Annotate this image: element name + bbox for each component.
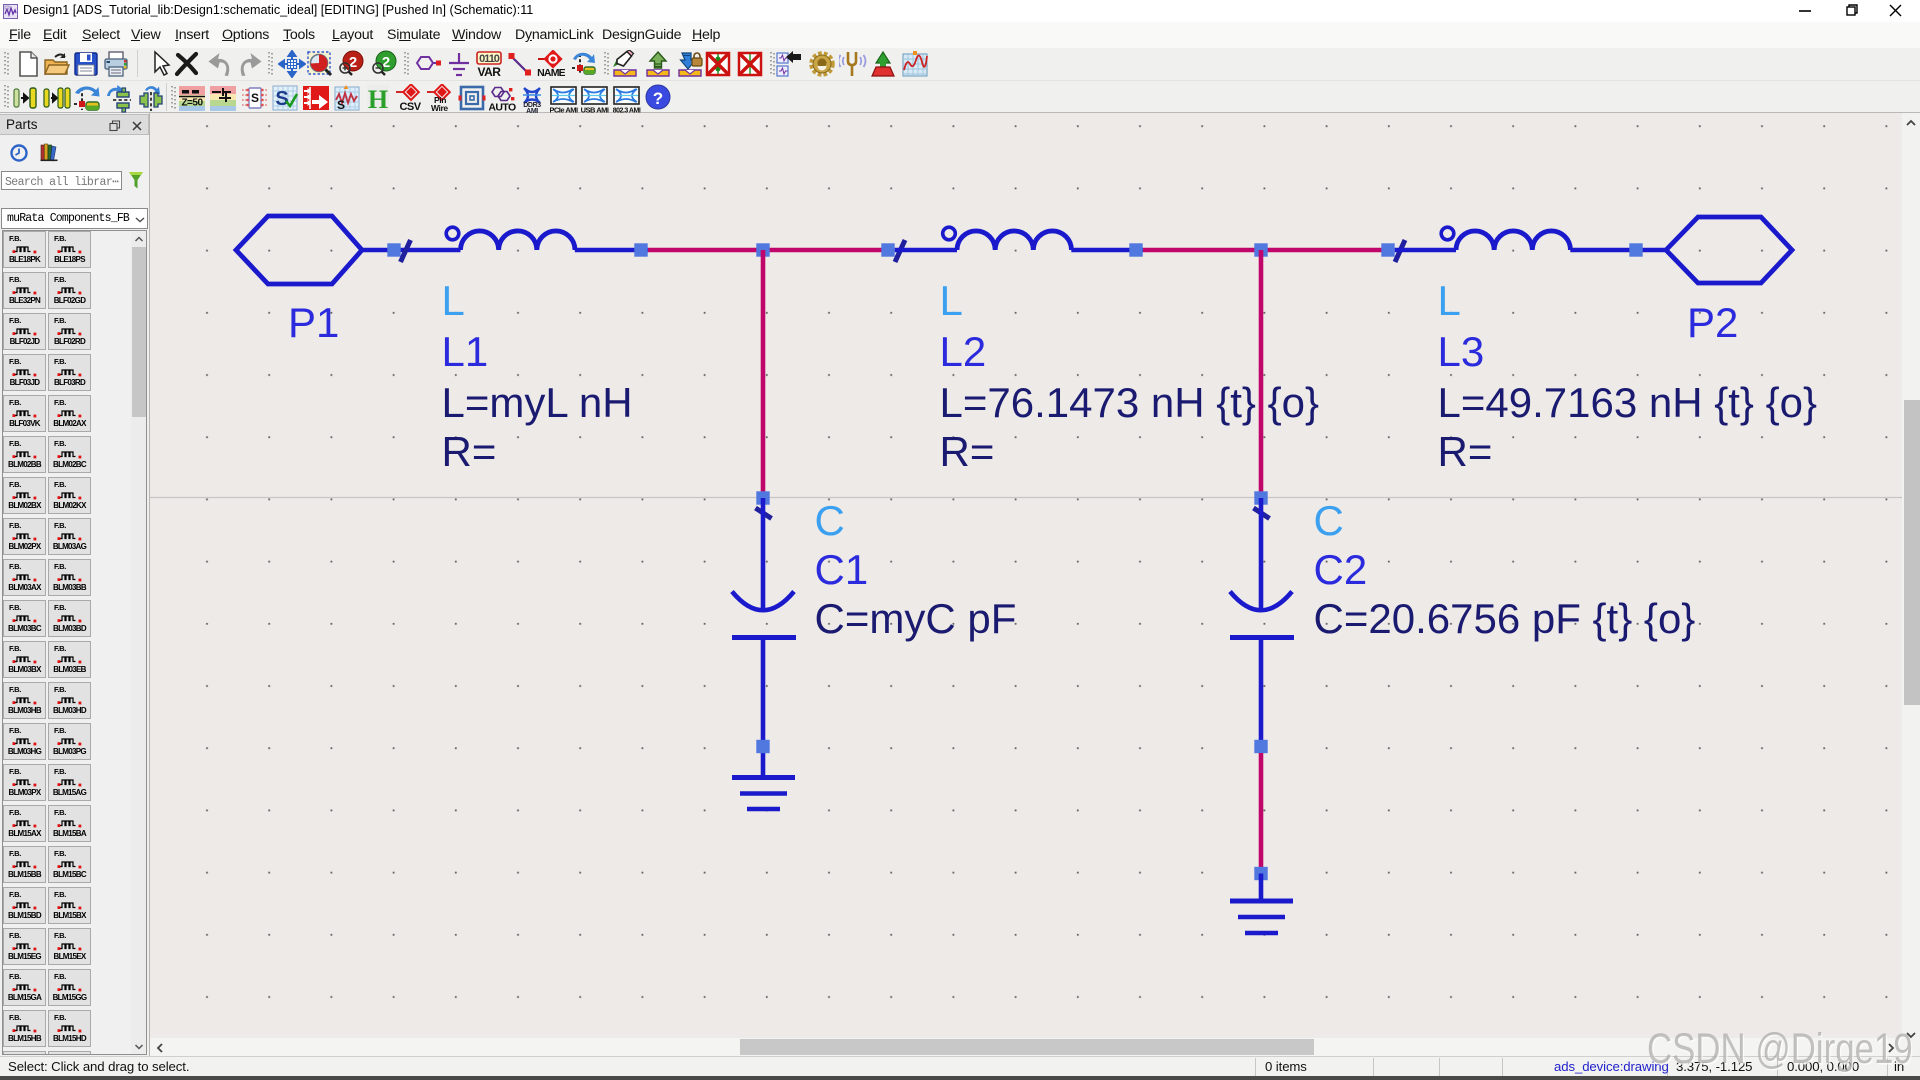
ground under C2 — [1230, 874, 1293, 934]
inductor L1 — [446, 227, 648, 250]
value L1 resistance — [442, 428, 497, 475]
svg-text:R=: R= — [940, 428, 995, 475]
node C1 pin 1 — [756, 491, 769, 504]
value C2 capacitance — [1314, 595, 1696, 642]
node C2 pin 2 — [1254, 740, 1267, 753]
label P2 — [1687, 299, 1738, 346]
svg-text:CSV: CSV — [399, 101, 421, 113]
wire node A to L2 — [763, 248, 888, 253]
wire P1 to L1 — [394, 248, 461, 253]
svg-text:S: S — [251, 91, 259, 105]
label C1 name — [815, 546, 869, 593]
label L3 type L — [1438, 277, 1461, 324]
inductor L3 — [1395, 227, 1666, 250]
svg-text:C=myC pF: C=myC pF — [815, 595, 1017, 642]
svg-text:H: H — [368, 85, 388, 114]
capacitor C2 — [1230, 498, 1294, 753]
pin 1 slash of C1 — [756, 508, 772, 519]
pin 1 slash of C2 — [1254, 508, 1270, 519]
label L3 name — [1438, 328, 1485, 375]
value L3 inductance — [1438, 379, 1818, 426]
wire node B to L3 — [1261, 248, 1388, 253]
label C2 type C — [1314, 497, 1344, 544]
pin 1 slash of L2 — [895, 240, 905, 262]
svg-text:Z=50: Z=50 — [181, 98, 203, 109]
svg-text:AUTO: AUTO — [489, 102, 516, 114]
svg-text:C=20.6756 pF {t} {o}: C=20.6756 pF {t} {o} — [1314, 595, 1696, 642]
x-axis grid line — [150, 497, 1902, 499]
svg-text:L3: L3 — [1438, 328, 1485, 375]
label L1 type L — [442, 277, 465, 324]
svg-text:S: S — [275, 88, 288, 110]
value L3 resistance — [1438, 428, 1493, 475]
svg-text:Wire: Wire — [431, 103, 448, 113]
value C1 capacitance — [815, 595, 1017, 642]
port P1 — [236, 216, 394, 284]
svg-text:L2: L2 — [940, 328, 987, 375]
label L1 name — [442, 328, 489, 375]
port P2 — [1666, 217, 1792, 283]
junction node B — [1254, 243, 1267, 256]
node L2 pin 2 — [1129, 243, 1142, 256]
svg-text:VAR: VAR — [478, 65, 502, 78]
svg-text:C: C — [815, 497, 845, 544]
wire C2 to ground — [1259, 753, 1264, 874]
svg-text:L: L — [442, 277, 465, 324]
svg-text:L=myL nH: L=myL nH — [442, 379, 633, 426]
node C2 ground wire — [1254, 867, 1267, 880]
svg-text:S: S — [337, 98, 345, 112]
junction node A — [756, 243, 769, 256]
node L3 pin 2 — [1629, 243, 1642, 256]
svg-text:?: ? — [653, 89, 663, 108]
ground under C1 — [732, 778, 795, 810]
node C1 pin 2 — [756, 740, 769, 753]
wire node B down to C2 — [1259, 250, 1264, 498]
svg-text:L: L — [940, 277, 963, 324]
svg-text:L=49.7163 nH {t} {o}: L=49.7163 nH {t} {o} — [1438, 379, 1818, 426]
svg-text:C2: C2 — [1314, 546, 1368, 593]
value L2 resistance — [940, 428, 995, 475]
svg-text:R=: R= — [1438, 428, 1493, 475]
value L1 inductance — [442, 379, 633, 426]
svg-text:P2: P2 — [1687, 299, 1738, 346]
svg-text:C1: C1 — [815, 546, 869, 593]
svg-text:NAME: NAME — [537, 67, 565, 78]
wire node A down to C1 — [761, 250, 766, 498]
wire L1 to node A — [648, 248, 763, 253]
label C1 type C — [815, 497, 845, 544]
pin 1 slash of L1 — [401, 240, 411, 262]
label P1 — [288, 299, 339, 346]
pin 1 slash of L3 — [1395, 240, 1405, 262]
wire L2 to node B — [1143, 248, 1261, 253]
inductor L2 — [895, 227, 1143, 250]
capacitor C1 — [732, 498, 796, 778]
node L2 pin 1 — [881, 243, 894, 256]
value L2 inductance — [940, 379, 1320, 426]
svg-text:C: C — [1314, 497, 1344, 544]
node L3 pin 1 — [1381, 243, 1394, 256]
node C2 pin 1 — [1254, 491, 1267, 504]
node L1 pin 2 — [634, 243, 647, 256]
svg-text:L1: L1 — [442, 328, 489, 375]
node between P1 and L1 — [387, 243, 400, 256]
label L2 type L — [940, 277, 963, 324]
label C2 name — [1314, 546, 1368, 593]
svg-text:0110: 0110 — [479, 53, 500, 65]
svg-text:L: L — [1438, 277, 1461, 324]
svg-text:P1: P1 — [288, 299, 339, 346]
label L2 name — [940, 328, 987, 375]
svg-text:R=: R= — [442, 428, 497, 475]
